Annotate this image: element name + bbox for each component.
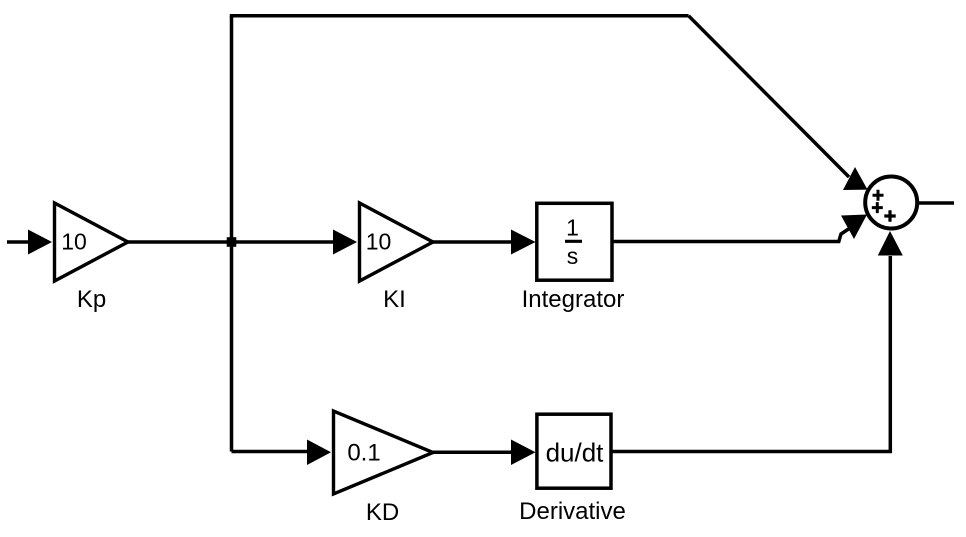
gain Kp triangle	[55, 203, 129, 281]
wire: bottom branch to KD	[232, 450, 310, 454]
plus sign 1	[873, 190, 884, 201]
wire: KD to Derivative	[433, 451, 513, 455]
arrowhead bottom input of sum	[878, 231, 903, 256]
svg-text:s: s	[567, 243, 579, 269]
svg-text:du/dt: du/dt	[546, 438, 605, 468]
svg-text:1: 1	[566, 215, 579, 241]
arrowhead into Derivative	[511, 440, 536, 466]
wire: top branch horizontal	[230, 14, 689, 18]
arrowhead into Integrator	[511, 230, 536, 255]
svg-text:10: 10	[366, 229, 392, 255]
block Integrator	[537, 203, 612, 280]
wire: top branch diagonal to sum	[689, 16, 849, 177]
block Derivative	[537, 414, 611, 488]
svg-text:Integrator: Integrator	[522, 286, 625, 313]
svg-text:10: 10	[61, 229, 87, 255]
arrowhead into KD	[307, 440, 331, 466]
sum block circle	[865, 177, 917, 229]
wire: KI to Integrator	[433, 240, 513, 244]
junction node	[227, 237, 237, 247]
plus sign 2	[872, 202, 883, 213]
arrowhead into Kp	[28, 230, 52, 255]
svg-text:Derivative: Derivative	[519, 498, 626, 525]
wire: Kp output to junction to KI	[128, 240, 333, 244]
wire: sum output	[916, 201, 954, 205]
wire: Integrator to sum (with jog)	[612, 226, 853, 242]
wire: Derivative to sum bottom	[611, 256, 890, 452]
gain KD triangle	[334, 411, 434, 494]
svg-text:KI: KI	[383, 286, 406, 313]
arrowhead middle input of sum	[841, 215, 867, 240]
plus sign 3	[884, 210, 895, 221]
arrowhead into KI	[333, 230, 357, 255]
integrator fraction bar	[565, 240, 582, 243]
svg-text:KD: KD	[366, 499, 399, 526]
svg-text:Kp: Kp	[77, 286, 106, 313]
arrowhead top input of sum	[843, 167, 868, 190]
svg-text:0.1: 0.1	[347, 439, 380, 466]
gain KI triangle	[360, 203, 434, 281]
wire: input to Kp	[7, 240, 30, 244]
wire: vertical branch through junction (top to bottom row)	[230, 16, 234, 452]
